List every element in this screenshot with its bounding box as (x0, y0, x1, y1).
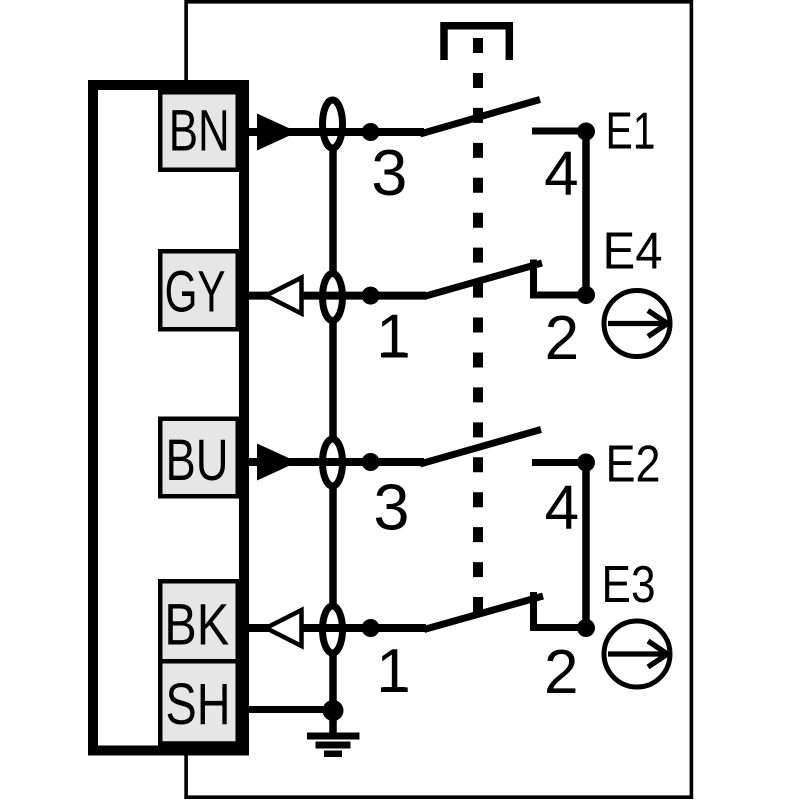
svg-text:BK: BK (164, 593, 229, 658)
svg-text:GY: GY (165, 259, 226, 324)
svg-text:4: 4 (545, 474, 579, 543)
svg-text:BU: BU (166, 428, 229, 493)
svg-text:E4: E4 (603, 223, 663, 281)
svg-text:BN: BN (169, 98, 230, 163)
svg-text:3: 3 (371, 136, 407, 209)
svg-text:2: 2 (544, 638, 578, 707)
svg-text:4: 4 (544, 140, 578, 209)
svg-text:E1: E1 (606, 103, 656, 161)
svg-text:2: 2 (545, 304, 579, 373)
svg-text:E3: E3 (602, 556, 656, 614)
svg-text:1: 1 (376, 302, 410, 371)
svg-text:1: 1 (376, 637, 410, 706)
svg-text:3: 3 (373, 470, 409, 543)
svg-text:SH: SH (166, 672, 231, 737)
svg-text:E2: E2 (606, 435, 661, 493)
